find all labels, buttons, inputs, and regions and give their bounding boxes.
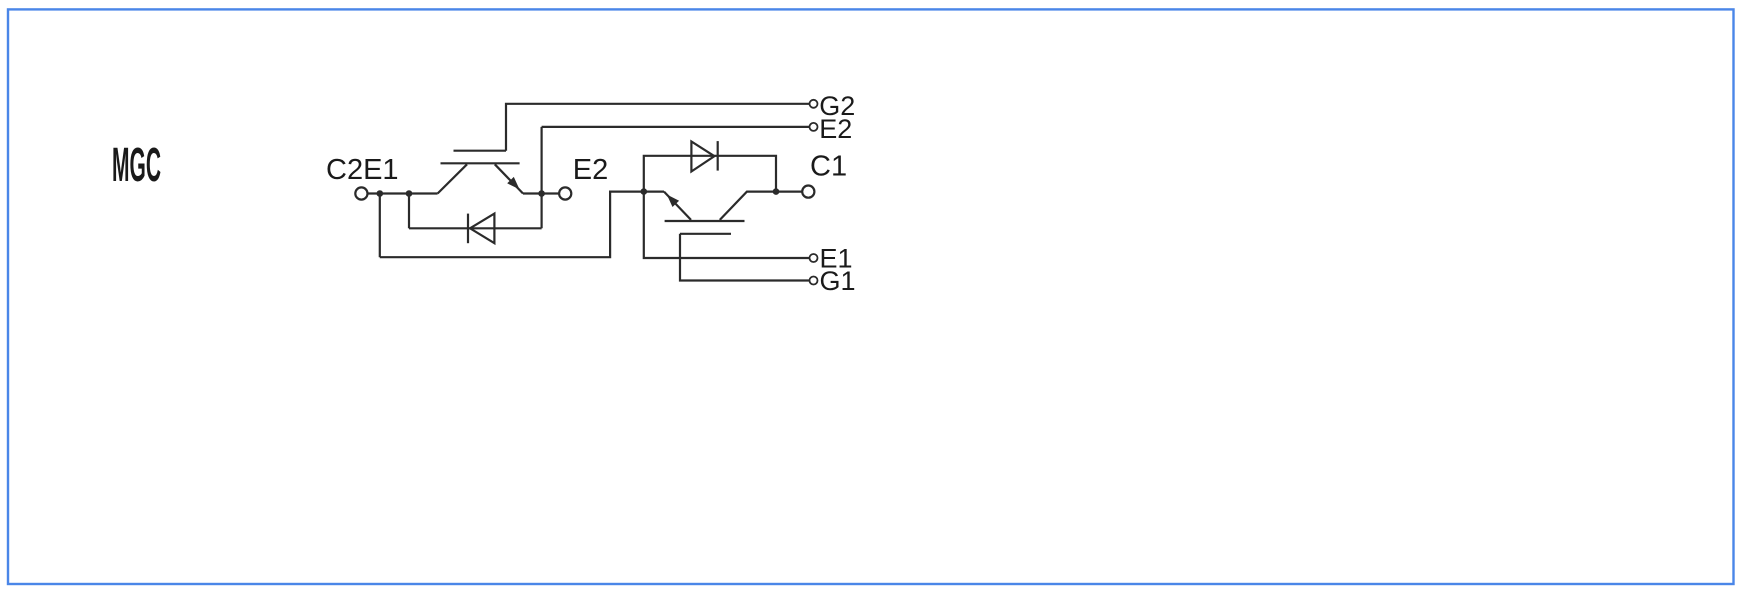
pin G1 bbox=[810, 266, 856, 296]
IGBT Q2 bbox=[438, 151, 523, 194]
terminal C2E1 bbox=[326, 154, 399, 200]
wire node to Q1 emitter bbox=[644, 191, 664, 193]
svg-text:G1: G1 bbox=[820, 266, 856, 296]
junction dot bbox=[406, 190, 413, 197]
wire diode D2 line bbox=[409, 227, 542, 229]
wire up to diode D1 branch bbox=[644, 156, 776, 192]
junction dot bbox=[377, 190, 384, 197]
svg-text:E2: E2 bbox=[573, 154, 608, 186]
wire Q1 emitter node to pin E1 bbox=[644, 192, 810, 258]
terminal E2 bbox=[559, 154, 608, 200]
pin E2 bbox=[810, 114, 853, 144]
wire bus lower bbox=[380, 192, 644, 258]
pin G2 bbox=[810, 91, 856, 121]
wire down from node to diode D2 bbox=[408, 194, 410, 229]
wire down from C2E1 node to bus bbox=[379, 194, 381, 258]
wire E2 vertical bbox=[540, 127, 542, 228]
svg-text:C2E1: C2E1 bbox=[326, 154, 399, 186]
wire Q2 gate to pin G2 bbox=[506, 104, 810, 151]
wire to pin E2 bbox=[542, 126, 810, 128]
wire Q2 emitter to E2 terminal bbox=[523, 192, 559, 194]
diode D2 bbox=[468, 214, 494, 244]
terminal C1 bbox=[802, 150, 847, 197]
junction dot bbox=[641, 188, 648, 195]
wire to C1 terminal bbox=[776, 191, 802, 193]
svg-text:E2: E2 bbox=[819, 114, 852, 144]
wire C2E1 to Q2 collector bbox=[368, 192, 438, 194]
IGBT Q1 bbox=[664, 192, 776, 234]
wire Q1 gate to pin G1 bbox=[680, 234, 810, 281]
junction dot bbox=[773, 188, 780, 195]
pin E1 bbox=[810, 244, 853, 274]
diode D1 bbox=[691, 141, 717, 171]
junction dot bbox=[538, 190, 545, 197]
svg-text:C1: C1 bbox=[810, 150, 847, 182]
svg-text:MGC: MGC bbox=[112, 139, 161, 192]
